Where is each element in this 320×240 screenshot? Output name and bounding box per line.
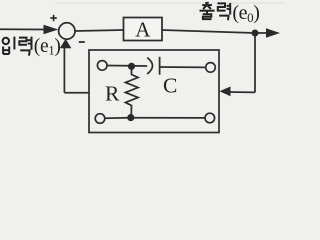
terminal bottom-right — [205, 113, 215, 123]
wire vertical feedback below summing junction — [63, 48, 65, 93]
wire input line — [0, 28, 46, 30]
label output hangul 출 — [200, 3, 215, 19]
wire A to output junction — [162, 30, 255, 33]
label minus sign — [79, 41, 85, 43]
svg-text:(e1): (e1) — [34, 36, 61, 58]
summing junction U1 — [59, 23, 75, 39]
svg-text:R: R — [105, 82, 120, 106]
label plus sign — [50, 15, 56, 21]
wire bottom rail left — [105, 117, 131, 120]
resistor R1 zigzag — [126, 66, 139, 117]
svg-text:A: A — [135, 18, 151, 42]
wire feedback horizontal to network left side — [64, 92, 89, 94]
node feedback arrowhead into summing junction — [60, 39, 72, 48]
node junction dot bottom — [127, 114, 134, 121]
block A (amplifier) — [124, 18, 163, 41]
wire top rail left — [107, 65, 147, 68]
wire summing junction to A — [75, 30, 123, 31]
node arrowhead into network box — [220, 87, 231, 97]
capacitor C1 straight plate — [159, 57, 161, 75]
node output junction dot — [252, 30, 259, 37]
label output hangul 력 — [218, 3, 231, 20]
node junction dot top — [128, 63, 135, 70]
node input arrowhead — [44, 25, 59, 35]
label input hangul 입 — [3, 37, 15, 54]
wire horizontal into network right side — [229, 91, 255, 93]
wire top rail right — [160, 66, 206, 68]
wire output junction to arrow — [255, 32, 268, 34]
terminal bottom-left — [95, 114, 105, 124]
terminal top-left — [97, 61, 107, 71]
terminal top-right — [206, 63, 216, 73]
capacitor C1 curved plate — [147, 58, 152, 74]
svg-text:(e0): (e0) — [232, 2, 259, 25]
node output arrowhead — [266, 28, 280, 38]
svg-text:C: C — [163, 74, 177, 98]
network box — [89, 50, 219, 133]
wire bottom rail right — [131, 117, 205, 119]
label input hangul 력 — [19, 37, 32, 56]
wire vertical drop from output junction — [254, 33, 256, 92]
